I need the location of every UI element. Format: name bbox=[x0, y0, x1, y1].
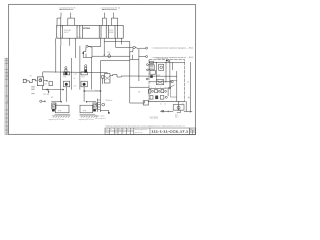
note small under manifold bbox=[150, 116, 159, 120]
pressure gauge MN1 bbox=[65, 67, 67, 75]
wire A4 bbox=[75, 46, 77, 58]
svg-text:Д1: Д1 bbox=[45, 83, 47, 85]
svg-text:ГСТ-90: ГСТ-90 bbox=[43, 94, 49, 96]
valve block K2 upper bbox=[81, 72, 87, 79]
svg-text:в: в bbox=[78, 27, 79, 29]
wire A2 bbox=[59, 46, 61, 90]
valve block K1 lower bbox=[63, 81, 69, 87]
svg-text:Изм: Изм bbox=[105, 129, 108, 131]
border frame bbox=[8, 4, 195, 134]
wire A5 bbox=[79, 46, 81, 90]
tap symbol cluster bbox=[98, 96, 113, 114]
wire return drop bbox=[99, 61, 101, 96]
wire V1 out bbox=[88, 45, 101, 47]
manifold mid rail bbox=[149, 80, 173, 85]
svg-text:к пневмосистеме тормозов прице: к пневмосистеме тормозов прицепа — ВЗ-1 bbox=[152, 48, 194, 50]
svg-text:М1: М1 bbox=[51, 97, 53, 99]
svg-text:КП2: КП2 bbox=[81, 77, 84, 79]
svg-text:КП1: КП1 bbox=[63, 77, 66, 79]
engine shaft symbol bbox=[23, 79, 37, 82]
pump P1 drain dashes bbox=[31, 87, 34, 94]
wire ticks above valve U1 bbox=[61, 13, 71, 16]
arrow line right bbox=[83, 90, 101, 91]
wire to pneumo port 1 bbox=[139, 47, 146, 49]
U2 lower staples bbox=[101, 38, 122, 44]
manifold inner wire 2 bbox=[176, 71, 178, 101]
manifold bottom rail bbox=[148, 100, 186, 102]
wire right link bbox=[130, 102, 132, 104]
note text left electromagnets bbox=[59, 7, 76, 10]
svg-text:Прв: Прв bbox=[127, 129, 130, 131]
wire pump riser bbox=[43, 72, 107, 77]
wire stepped pipe bbox=[110, 74, 177, 77]
svg-text:гидромотор МП-90 прав.: гидромотор МП-90 прав. bbox=[48, 119, 65, 121]
cooler rail bbox=[149, 85, 175, 89]
manifold enclosure bbox=[149, 60, 185, 102]
svg-text:е: е bbox=[61, 36, 62, 38]
svg-text:ВМГ: ВМГ bbox=[157, 75, 161, 77]
svg-text:Др: Др bbox=[188, 97, 190, 99]
manifold top rail bbox=[149, 61, 185, 63]
svg-text:111-1-11-ССБ.17.1: 111-1-11-ССБ.17.1 bbox=[151, 130, 189, 134]
tank label bbox=[175, 115, 178, 119]
svg-text:Лит: Лит bbox=[190, 129, 193, 131]
svg-text:см. на листе 2: см. на листе 2 bbox=[95, 118, 106, 120]
svg-text:МГ: МГ bbox=[138, 91, 140, 93]
tank outlet bbox=[177, 110, 192, 113]
svg-text:а: а bbox=[57, 27, 58, 29]
wire manifold right drop bbox=[185, 101, 187, 111]
gearbox R1 bbox=[55, 105, 69, 113]
svg-text:Разраб: Разраб bbox=[105, 132, 110, 134]
filter F1 bbox=[102, 74, 110, 84]
pump P1 body bbox=[37, 77, 43, 86]
svg-text:Обозн. прим.: Обозн. прим. bbox=[95, 116, 105, 118]
wire drain line bbox=[92, 55, 130, 57]
wire A1 bbox=[55, 46, 57, 73]
gearbox R1 mount hatch bbox=[52, 115, 70, 118]
port circle top bbox=[166, 60, 170, 62]
pilot valve V2 bbox=[130, 46, 139, 59]
wire manifold feed bbox=[130, 86, 149, 88]
port circle BZ2 bbox=[146, 56, 148, 58]
port labels above tank bbox=[160, 104, 166, 106]
lower component row 1 bbox=[148, 89, 168, 96]
svg-text:б: б bbox=[61, 27, 62, 29]
title block right cells bbox=[190, 128, 196, 135]
wire ticks above valve U2 bbox=[105, 13, 114, 16]
wire tank riser bbox=[178, 101, 180, 104]
svg-text:64-12: 64-12 bbox=[64, 32, 68, 34]
tank pump unit bbox=[173, 105, 184, 111]
svg-text:трансмиссии: трансмиссии bbox=[134, 132, 142, 134]
svg-text:Пдп: Пдп bbox=[118, 129, 121, 131]
svg-text:Подп. дата: Подп. дата bbox=[7, 126, 9, 134]
wire bridge blocks bbox=[104, 40, 130, 42]
pump P1 outlet arrow bbox=[44, 80, 48, 82]
wire M1 feed bbox=[65, 87, 67, 102]
svg-text:д: д bbox=[57, 36, 58, 38]
valve U1 internal label bbox=[64, 29, 71, 34]
title block cells text bbox=[105, 129, 148, 134]
cooler circle bbox=[169, 87, 171, 89]
tank feed line bbox=[160, 110, 173, 112]
manifold inner rect bbox=[170, 80, 176, 97]
svg-text:Привод гидрообъемн.: Привод гидрообъемн. bbox=[134, 129, 148, 131]
U1 lower staples bbox=[56, 38, 76, 46]
solenoid Y1 staple bbox=[57, 15, 61, 25]
directional valve U1 body bbox=[57, 25, 124, 38]
manifold wires mid bbox=[156, 62, 170, 89]
wire stub left bbox=[138, 60, 140, 81]
solenoid Y2 staple bbox=[68, 15, 75, 25]
svg-text:АБ1: АБ1 bbox=[95, 90, 98, 93]
directional valve U2 body bbox=[99, 25, 117, 38]
svg-text:10: 10 bbox=[160, 104, 162, 106]
wire A6 bbox=[90, 57, 92, 89]
port circles manifold left bbox=[146, 64, 148, 80]
gearbox R2 bbox=[80, 105, 93, 113]
wire right drop bbox=[189, 62, 191, 111]
svg-text:2,5л: 2,5л bbox=[74, 74, 77, 76]
hydraulic motor M1 bbox=[51, 101, 61, 111]
svg-text:гидромотор МП-90 лев.: гидромотор МП-90 лев. bbox=[78, 119, 94, 121]
svg-text:ред.: ред. bbox=[58, 110, 62, 112]
valve box SB1 bbox=[45, 81, 53, 85]
wire B1 bbox=[100, 44, 102, 46]
wire A3 bbox=[70, 58, 72, 90]
svg-text:ред.: ред. bbox=[83, 110, 87, 112]
manifold inner wire bbox=[172, 62, 174, 70]
note rows bbox=[95, 116, 106, 120]
svg-text:к электромагнитам Э1, Э2: к электромагнитам Э1, Э2 bbox=[59, 7, 76, 9]
svg-text:к электромагнитам Э3, Э4: к электромагнитам Э3, Э4 bbox=[101, 8, 120, 10]
arrow line left bbox=[46, 89, 64, 90]
middle capacity labels bbox=[74, 74, 77, 88]
valve U1 port ticks bbox=[57, 27, 81, 39]
lower component row 2 bbox=[150, 96, 167, 100]
wire B2 drain drop bbox=[103, 44, 105, 56]
wire M2 feed bbox=[83, 87, 85, 102]
svg-text:ГМ-90 лв: ГМ-90 лв bbox=[106, 100, 113, 102]
pressure gauge MN2 bbox=[85, 65, 87, 73]
svg-text:ГОСТ 20799: ГОСТ 20799 bbox=[150, 118, 158, 120]
left margin rotated labels bbox=[6, 70, 9, 133]
svg-text:11: 11 bbox=[164, 104, 166, 106]
relief valve RV1 bbox=[149, 65, 154, 70]
svg-text:блок клапанов: блок клапанов bbox=[156, 58, 167, 60]
svg-text:х2: х2 bbox=[74, 78, 76, 80]
check valve CV1 bbox=[107, 52, 110, 58]
valve block K2 lower bbox=[81, 81, 87, 87]
svg-text:масло МГ-30: масло МГ-30 bbox=[150, 116, 159, 118]
hydraulic motor M2 bbox=[86, 101, 97, 111]
note text right electromagnets bbox=[101, 8, 120, 11]
svg-text:Н1: Н1 bbox=[30, 76, 32, 78]
valve box K3 bbox=[150, 70, 155, 77]
solenoid Y4 staple bbox=[111, 15, 117, 25]
svg-text:25л: 25л bbox=[74, 86, 77, 88]
svg-text:КО1: КО1 bbox=[107, 52, 110, 54]
svg-text:БГУ2.Б: БГУ2.Б bbox=[83, 28, 90, 30]
valve U2 internal label bbox=[109, 30, 113, 34]
svg-text:АЛ64: АЛ64 bbox=[109, 31, 113, 34]
left margin table bbox=[5, 58, 8, 134]
svg-text:Привод гидрообъемный трансмисс: Привод гидрообъемный трансмиссии. Схема … bbox=[105, 125, 184, 128]
port number labels bbox=[151, 87, 166, 89]
relief valve RV2 bbox=[159, 64, 164, 70]
wire B3 to V2 bbox=[116, 44, 133, 47]
pilot valve V1 bbox=[82, 45, 92, 57]
title block table bbox=[105, 128, 190, 135]
port circle BZ1 bbox=[146, 47, 148, 49]
solenoid Y3 staple bbox=[102, 15, 106, 25]
wire K1 down bbox=[59, 90, 61, 102]
gearbox R2 mount hatch bbox=[80, 115, 98, 118]
makeup pump cluster bbox=[40, 100, 46, 102]
wire mid riser bbox=[129, 41, 131, 103]
wire return line bbox=[100, 60, 129, 62]
small box BV bbox=[143, 101, 148, 105]
valve block K1 upper bbox=[63, 72, 70, 79]
svg-text:63 л: 63 л bbox=[175, 117, 178, 119]
pump drain wire bbox=[42, 86, 48, 92]
wire to pneumo port 2 bbox=[139, 55, 146, 57]
wire bottom link bbox=[130, 101, 145, 103]
svg-text:Инв. подл.: Инв. подл. bbox=[7, 95, 9, 103]
